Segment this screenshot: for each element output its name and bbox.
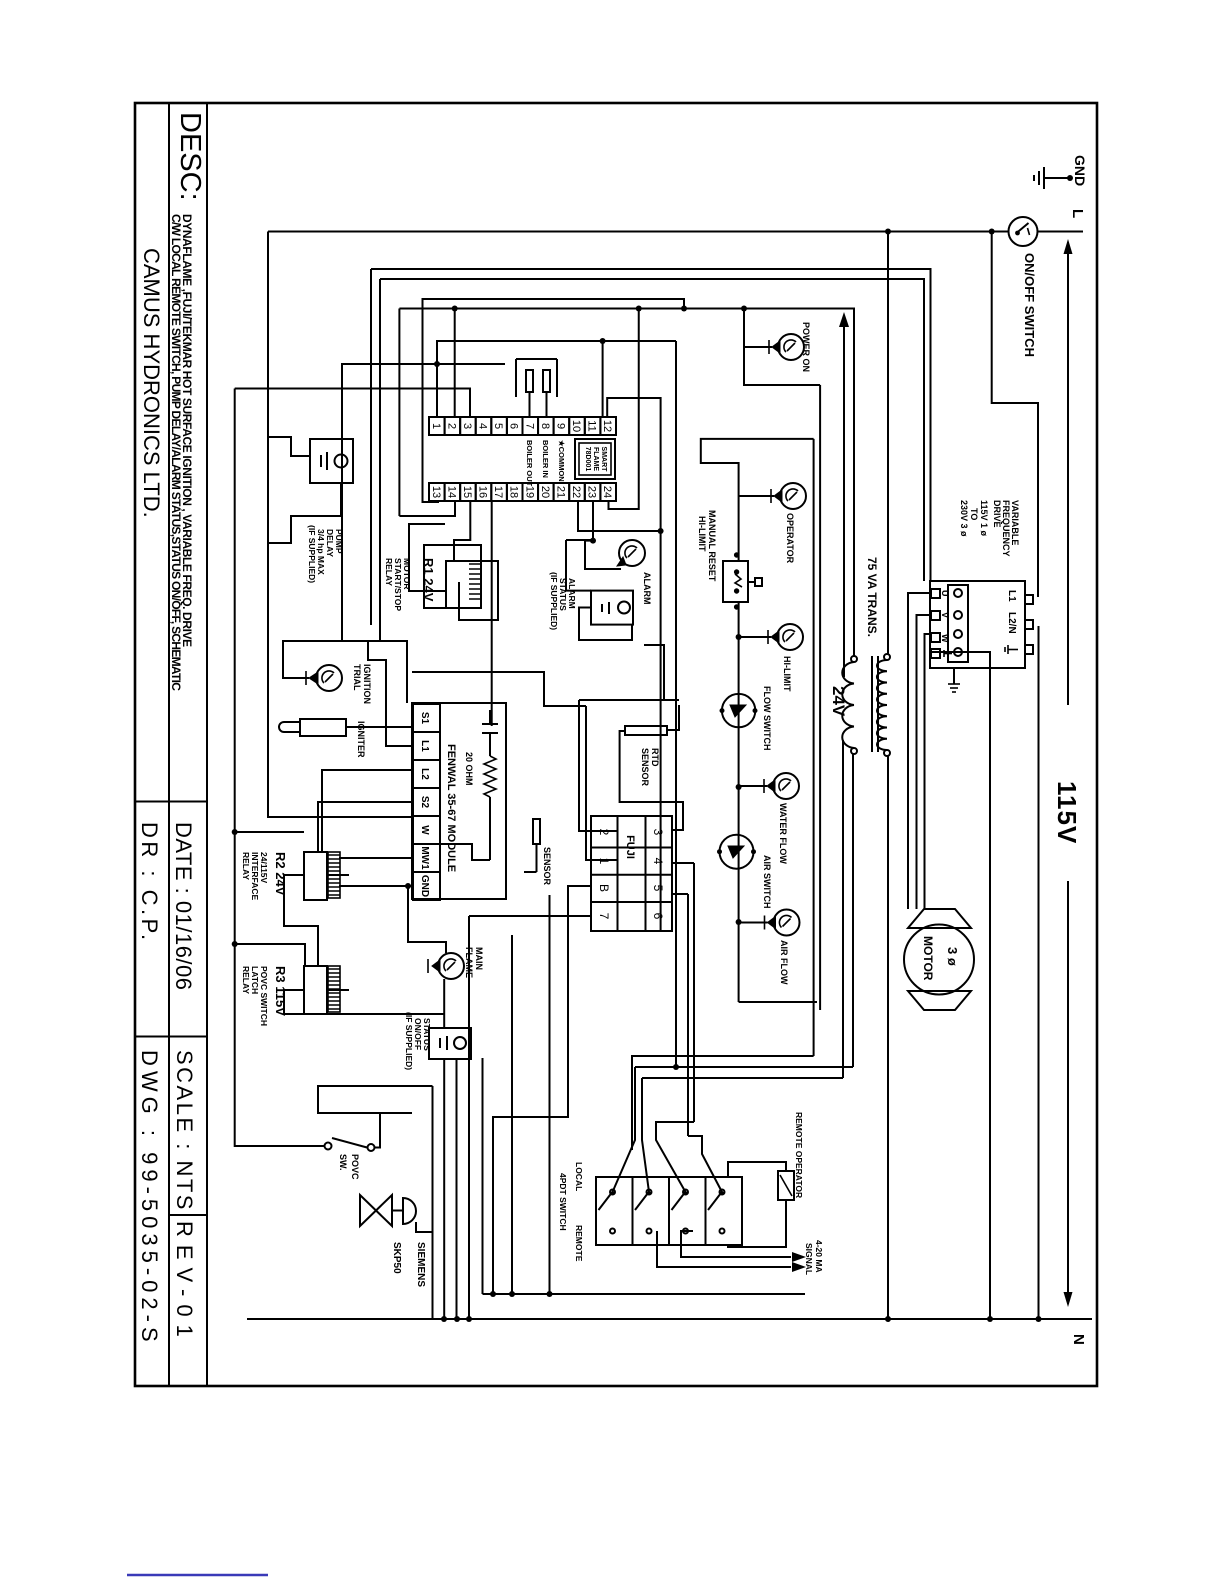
wire chain main xyxy=(738,512,740,561)
svg-text:U: U xyxy=(940,590,950,597)
svg-text:(IF SUPPLIED): (IF SUPPLIED) xyxy=(549,572,559,630)
wire RTD to FUJI 3 xyxy=(620,731,683,830)
wire terminal 22 xyxy=(578,501,661,531)
svg-text:5: 5 xyxy=(651,885,665,892)
wire VFD input pair lower xyxy=(380,279,924,581)
svg-text:20: 20 xyxy=(539,486,551,498)
wire 24V bus horizontal low xyxy=(398,309,400,517)
svg-text:7: 7 xyxy=(597,913,611,920)
wire remote operator loop a xyxy=(728,1162,786,1177)
svg-text:17: 17 xyxy=(492,486,504,498)
svg-text:ON/OFF SWITCH: ON/OFF SWITCH xyxy=(1022,253,1037,357)
power on lamp DS1 xyxy=(744,322,811,372)
svg-text:TRIAL: TRIAL xyxy=(352,664,362,691)
on/off switch SW1 xyxy=(1009,217,1038,357)
wire FUJI 1 xyxy=(586,706,617,860)
svg-text:5: 5 xyxy=(492,423,504,429)
svg-text:R3 115V: R3 115V xyxy=(273,966,288,1016)
wire local feed diag 1 xyxy=(613,1067,636,1192)
wire primary rail xyxy=(887,232,889,655)
svg-text:9: 9 xyxy=(554,423,566,429)
svg-text:230V 3 ø: 230V 3 ø xyxy=(959,500,969,537)
svg-text:IGNITER: IGNITER xyxy=(356,721,366,758)
drawing border frame xyxy=(135,103,1097,1386)
wire terminal 23 to alarm xyxy=(592,501,594,540)
status on/off box xyxy=(404,1012,471,1070)
svg-text:18: 18 xyxy=(508,486,520,498)
FUJI terminal block xyxy=(591,816,672,931)
svg-text:FENWAL 35-67 MODULE: FENWAL 35-67 MODULE xyxy=(445,744,457,872)
wire 24V bus from secondary left xyxy=(399,309,854,657)
wire local feed diag 4 xyxy=(688,1136,722,1192)
svg-text:DESC:: DESC: xyxy=(174,112,206,201)
svg-text:7: 7 xyxy=(523,423,535,429)
svg-text:SMART: SMART xyxy=(600,447,607,473)
wire FUJI 7 to neutral bundle xyxy=(469,915,591,917)
junction dots chain xyxy=(736,634,742,640)
motor M1 3-phase xyxy=(904,909,974,1010)
wire fuji5 run xyxy=(687,894,689,1136)
svg-text:DRIVE: DRIVE xyxy=(992,500,1002,528)
wire fenwal MW1 to R2 xyxy=(339,857,412,859)
svg-text:22: 22 xyxy=(570,486,582,498)
wire remote to 4-20ma a xyxy=(681,1231,791,1257)
svg-text:CAMUS HYDRONICS LTD.: CAMUS HYDRONICS LTD. xyxy=(139,248,164,518)
flow switch FS1 xyxy=(720,686,773,751)
igniter element xyxy=(279,719,412,758)
wire 24V rail second full xyxy=(819,385,821,1010)
flame sensor element xyxy=(524,819,552,886)
svg-text:115V: 115V xyxy=(1052,781,1082,844)
wire VFD input pair upper xyxy=(371,269,931,581)
svg-text:FLAME: FLAME xyxy=(592,447,599,471)
wire primary rail right to N xyxy=(887,756,889,1319)
svg-text:115V 1 ø: 115V 1 ø xyxy=(979,500,989,537)
title block divider REV cell xyxy=(169,1214,207,1216)
svg-text:S2: S2 xyxy=(419,796,430,809)
svg-text:13: 13 xyxy=(430,486,442,498)
svg-text:6: 6 xyxy=(508,423,520,429)
svg-text:REMOTE OPERATOR: REMOTE OPERATOR xyxy=(794,1112,804,1198)
wire feeder line a xyxy=(370,269,372,625)
wire terminal 16 to R1 xyxy=(491,501,493,726)
transformer T1 75VA xyxy=(829,654,890,756)
wire povc to skp bus xyxy=(318,1086,433,1113)
svg-text:14: 14 xyxy=(445,486,457,498)
wire local feed diag 3 xyxy=(656,1122,694,1192)
svg-text:DR : C.P.: DR : C.P. xyxy=(137,822,162,944)
VFD annotation text xyxy=(959,500,1020,557)
wire 24V rail top xyxy=(813,439,815,1056)
wire mid link a xyxy=(644,645,679,700)
svg-text:C/W LOCAL REMOTE SWITCH, PUMP: C/W LOCAL REMOTE SWITCH, PUMP DELAY/ALAR… xyxy=(169,214,183,691)
svg-text:DATE : 01/16/06: DATE : 01/16/06 xyxy=(171,822,196,991)
igniter electrode bracket xyxy=(516,359,557,417)
wire to terminal 12 a xyxy=(602,341,604,417)
title block top line xyxy=(206,103,208,1386)
svg-text:24: 24 xyxy=(601,486,613,498)
svg-text:L2: L2 xyxy=(419,768,430,780)
wire 24V return secondary right xyxy=(852,754,854,1067)
svg-text:RTD: RTD xyxy=(650,748,660,767)
wire ignition trial loop xyxy=(283,641,407,703)
wire RTD top xyxy=(667,705,679,730)
svg-text:SENSOR: SENSOR xyxy=(640,748,650,787)
wire 24V rail drop to local xyxy=(632,1056,814,1150)
svg-text:GND: GND xyxy=(419,875,430,897)
wire long run to 4PDT local xyxy=(675,341,677,1067)
wire local feed diag 2 xyxy=(642,1078,649,1192)
svg-text:N: N xyxy=(1070,1334,1087,1345)
VFD variable frequency drive box xyxy=(930,581,1033,668)
junction dot L rail to VFD L1 xyxy=(989,229,995,235)
wire r3 down xyxy=(284,990,444,1014)
junction dot t1 xyxy=(434,361,440,367)
wire L bottom run to fenwal W xyxy=(268,232,412,818)
wire cell16 nest xyxy=(424,545,481,608)
svg-text:75 VA TRANS.: 75 VA TRANS. xyxy=(865,557,879,637)
svg-text:1: 1 xyxy=(597,858,611,865)
wire to terminal 1 xyxy=(437,341,676,417)
wire r2 r3 link xyxy=(284,875,318,966)
ground at VFD output xyxy=(948,668,960,692)
svg-text:OPERATOR: OPERATOR xyxy=(785,513,795,564)
main flame lamp DS8 xyxy=(428,947,484,979)
svg-text:★COMMON: ★COMMON xyxy=(557,440,566,482)
wire bundle N1 status box to N xyxy=(456,1058,458,1319)
svg-text:R2 24V: R2 24V xyxy=(273,852,288,896)
svg-text:RELAY: RELAY xyxy=(241,852,251,880)
svg-text:AIR FLOW: AIR FLOW xyxy=(779,940,789,985)
svg-text:SW.: SW. xyxy=(338,1154,348,1171)
wire R1 to alarm bus xyxy=(409,524,446,591)
wire fuji4 run xyxy=(693,863,695,1122)
wire terminal 14 to bus xyxy=(399,501,455,516)
wire terminal 15 xyxy=(454,501,470,561)
wire terminal 13 long loop xyxy=(423,299,685,502)
operator lamp DS6 xyxy=(739,483,806,564)
wire status to vbus xyxy=(482,1058,484,1294)
4-20 MA arrows xyxy=(792,1240,824,1275)
wire mid link c xyxy=(412,672,586,706)
wire mid link b xyxy=(579,699,664,701)
svg-text:20 OHM: 20 OHM xyxy=(464,752,474,786)
wire L2/N return xyxy=(1038,626,1040,1319)
wire safety chain feed from 24V rail xyxy=(701,439,814,512)
svg-text:(IF SUPPLIED): (IF SUPPLIED) xyxy=(404,1012,414,1070)
wire motor V xyxy=(917,615,932,909)
svg-text:11: 11 xyxy=(586,420,598,431)
svg-text:WATER FLOW: WATER FLOW xyxy=(778,803,788,864)
svg-text:REMOTE: REMOTE xyxy=(574,1225,584,1262)
wire terminal 24 to bus xyxy=(609,310,639,509)
wire R3 to povc bus xyxy=(235,944,305,966)
Fenwal 35-67 module box U2 xyxy=(412,703,506,900)
4PDT local/remote switch xyxy=(558,1162,742,1262)
svg-text:REV-01: REV-01 xyxy=(172,1221,197,1345)
wire flame lamp feed from fenwal xyxy=(408,886,446,953)
wire L1 cell down xyxy=(368,641,412,746)
svg-text:MAIN: MAIN xyxy=(474,947,484,970)
svg-text:MW1: MW1 xyxy=(419,846,430,870)
svg-text:V: V xyxy=(940,612,950,618)
air flow lamp DS4 xyxy=(739,910,800,985)
svg-text:15: 15 xyxy=(461,486,473,498)
svg-text:AIR SWITCH: AIR SWITCH xyxy=(762,855,772,909)
wire FUJI B xyxy=(493,886,591,1294)
svg-text:2: 2 xyxy=(445,423,457,429)
RTD sensor xyxy=(625,726,667,787)
svg-text:3: 3 xyxy=(651,829,665,836)
wire bundle N3 main flame to status box xyxy=(443,979,445,1028)
terminal labels xyxy=(525,440,566,487)
svg-text:FUJI: FUJI xyxy=(624,835,636,859)
manual reset hi-limit box xyxy=(697,510,762,610)
wire FUJI 4 xyxy=(672,862,694,864)
wire to terminal 3 xyxy=(235,389,470,418)
svg-text:19: 19 xyxy=(523,486,535,498)
wire L1 feed xyxy=(992,232,1038,598)
wire N rail right side xyxy=(247,1318,1092,1320)
wire branch down from t1 wire xyxy=(342,364,505,641)
svg-text:6: 6 xyxy=(651,913,665,920)
svg-text:TO: TO xyxy=(969,508,979,520)
svg-text:4-20 MA: 4-20 MA xyxy=(814,1240,824,1273)
svg-text:DWG : 99-5035-02-S: DWG : 99-5035-02-S xyxy=(137,1050,162,1347)
title block divider DATE cell xyxy=(135,801,207,803)
svg-text:HI-LIMIT: HI-LIMIT xyxy=(782,656,792,692)
junction dot t2 bus xyxy=(452,306,458,312)
wire remote to 4-20ma b xyxy=(657,1231,791,1267)
115V annotation line with arrows xyxy=(1052,239,1082,1307)
svg-text:L1: L1 xyxy=(1006,590,1017,602)
svg-text:W: W xyxy=(940,634,950,643)
water flow lamp DS3 xyxy=(739,773,799,864)
svg-text:3: 3 xyxy=(461,423,473,429)
wire bundle N3 status box to N xyxy=(443,1058,445,1319)
terminal strip TB1 xyxy=(429,417,616,501)
svg-text:S1: S1 xyxy=(419,712,430,725)
wire motor U xyxy=(908,593,931,909)
wire povc up xyxy=(374,1113,412,1148)
svg-text:23: 23 xyxy=(586,486,598,498)
air switch PS1 xyxy=(717,835,772,909)
smart flame module box xyxy=(575,439,615,479)
wire bus 713 xyxy=(511,935,513,1294)
svg-text:POVC: POVC xyxy=(350,1154,360,1180)
svg-text:BOILER OUT: BOILER OUT xyxy=(525,440,534,487)
svg-text:SIEMENS: SIEMENS xyxy=(415,1242,426,1287)
wire povc feed bottom xyxy=(235,389,325,1147)
wire pump delay lead 1 xyxy=(269,437,311,456)
wire FUJI 5 xyxy=(672,893,688,895)
wire 24V return drop to local switch xyxy=(635,1066,853,1068)
siemens SKP50 gas valve xyxy=(360,1195,426,1287)
svg-text:(IF SUPPLIED): (IF SUPPLIED) xyxy=(307,525,317,583)
svg-text:24V: 24V xyxy=(829,686,848,717)
svg-text:HI-LIMIT: HI-LIMIT xyxy=(697,516,707,552)
svg-text:78D001: 78D001 xyxy=(584,447,591,472)
svg-text:16: 16 xyxy=(477,486,489,498)
svg-text:12: 12 xyxy=(601,420,613,432)
wire fenwal S2 to R2 xyxy=(318,802,412,852)
wire fenwal GND to R2 xyxy=(339,885,412,887)
svg-text:4: 4 xyxy=(651,858,665,865)
20 ohm resistor in fenwal xyxy=(440,710,498,860)
svg-text:3 ø: 3 ø xyxy=(945,947,960,966)
wire L feed down left side xyxy=(268,231,1008,233)
wire to terminal 2 xyxy=(454,309,456,417)
wire R2 to povc bus xyxy=(235,831,304,833)
svg-text:SIGNAL: SIGNAL xyxy=(804,1243,814,1275)
wire vbus 1293 xyxy=(483,1293,806,1295)
wire L line top xyxy=(1038,231,1083,233)
wire FUJI 2 xyxy=(579,700,617,831)
wire skp50 to N bus xyxy=(416,1222,433,1319)
svg-text:8: 8 xyxy=(539,423,551,429)
wire 24V annotation arrow line xyxy=(642,312,849,1078)
ignition trial lamp DS5 xyxy=(294,664,372,704)
svg-text:FLOW SWITCH: FLOW SWITCH xyxy=(762,686,772,751)
wire motor W xyxy=(925,634,932,909)
wire remote operator loop b xyxy=(728,1200,786,1247)
wire power on loop xyxy=(741,306,747,312)
svg-text:L2/N: L2/N xyxy=(1006,612,1017,634)
relay R1 xyxy=(384,558,481,611)
wire bundle N2 fuji7 feed xyxy=(468,916,470,1319)
svg-text:IGNITION: IGNITION xyxy=(362,664,372,704)
wire bus 675 xyxy=(549,895,551,1294)
svg-text:SCALE : NTS: SCALE : NTS xyxy=(172,1050,197,1212)
svg-text:BOILER IN: BOILER IN xyxy=(541,440,550,478)
svg-text:SKP50: SKP50 xyxy=(391,1242,402,1274)
wire chain end to 24V rail second xyxy=(739,1001,817,1003)
svg-text:GND: GND xyxy=(1072,155,1088,186)
POVC switch xyxy=(325,1138,375,1180)
junction dots on N rail xyxy=(441,1316,1042,1322)
title block mid line xyxy=(168,103,170,1386)
svg-text:SENSOR: SENSOR xyxy=(542,847,552,886)
wire skp50 feed xyxy=(432,1086,434,1232)
remote operator pot xyxy=(778,1112,804,1200)
title block divider SCALE cell xyxy=(135,1036,207,1038)
svg-text:B: B xyxy=(597,884,611,892)
svg-text:MANUAL RESET: MANUAL RESET xyxy=(707,510,717,582)
svg-text:10: 10 xyxy=(570,420,582,432)
svg-text:MOTOR: MOTOR xyxy=(921,936,935,981)
wire to terminal 12 b long xyxy=(607,398,660,931)
relay R2 xyxy=(241,852,349,901)
wire VFD ground return xyxy=(930,652,990,1319)
svg-text:W: W xyxy=(419,825,430,835)
wire pump delay lead 2 xyxy=(269,483,342,543)
svg-text:4: 4 xyxy=(477,423,489,429)
svg-text:L: L xyxy=(1069,209,1086,218)
hi-limit lamp DS2 xyxy=(739,624,803,692)
svg-text:RELAY: RELAY xyxy=(241,966,251,994)
svg-text:1: 1 xyxy=(430,423,442,429)
svg-text:LOCAL: LOCAL xyxy=(574,1162,584,1191)
svg-text:4PDT SWITCH: 4PDT SWITCH xyxy=(558,1173,568,1231)
relay R3 xyxy=(241,966,349,1026)
svg-text:ALARM: ALARM xyxy=(642,572,652,605)
svg-text:21: 21 xyxy=(554,486,566,498)
svg-text:2: 2 xyxy=(597,829,611,836)
pump delay contact box xyxy=(307,439,353,583)
ground GND symbol xyxy=(1034,155,1088,189)
alarm status box xyxy=(549,540,633,640)
wire feeder line b xyxy=(379,279,381,641)
wire fenwal L2 to R2 xyxy=(322,770,412,852)
decorative blue underline xyxy=(127,1574,268,1577)
alarm lamp DS7 xyxy=(585,538,652,605)
svg-text:L1: L1 xyxy=(419,740,430,752)
svg-text:RELAY: RELAY xyxy=(384,558,394,586)
wire R1 loop xyxy=(459,561,498,620)
svg-text:POWER ON: POWER ON xyxy=(801,322,811,372)
